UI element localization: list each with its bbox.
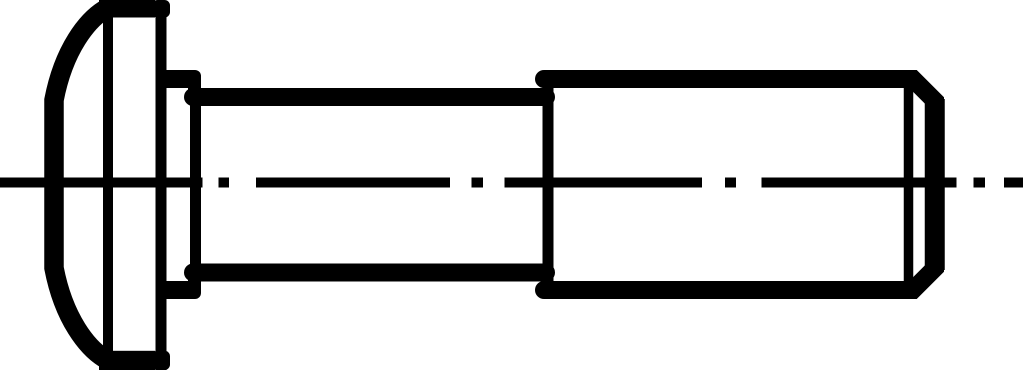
shank bottom edge [193,264,546,282]
collar bottom-right corner [188,279,201,299]
centerline dot 2 [472,178,484,188]
centerline dot 4 [974,178,986,188]
head top flat [99,0,155,18]
thread runout face [543,71,554,299]
centerline dot 1 [219,178,230,188]
head-dome tangent line [103,4,113,364]
centerline dash 3 [505,178,703,188]
centerline dot 3 [725,178,736,188]
thread section outline with chamfered end [544,79,935,290]
collar top-right corner [188,70,201,90]
point end face [925,99,945,270]
shank top edge [193,88,546,106]
centerline axis: dash through head [0,178,203,188]
centerline dash 5 [1004,178,1023,188]
collar top edge [156,70,191,88]
head bottom flat [99,351,155,370]
head top-right corner [152,0,170,18]
collar bottom edge [156,281,191,299]
chamfer edge line [904,80,914,285]
head dome profile [54,10,104,358]
head bearing face line [156,8,167,370]
collar face line [190,76,201,293]
centerline dash 4 [762,178,957,188]
centerline dash 2 [256,178,450,188]
head bottom-right corner [152,351,170,370]
